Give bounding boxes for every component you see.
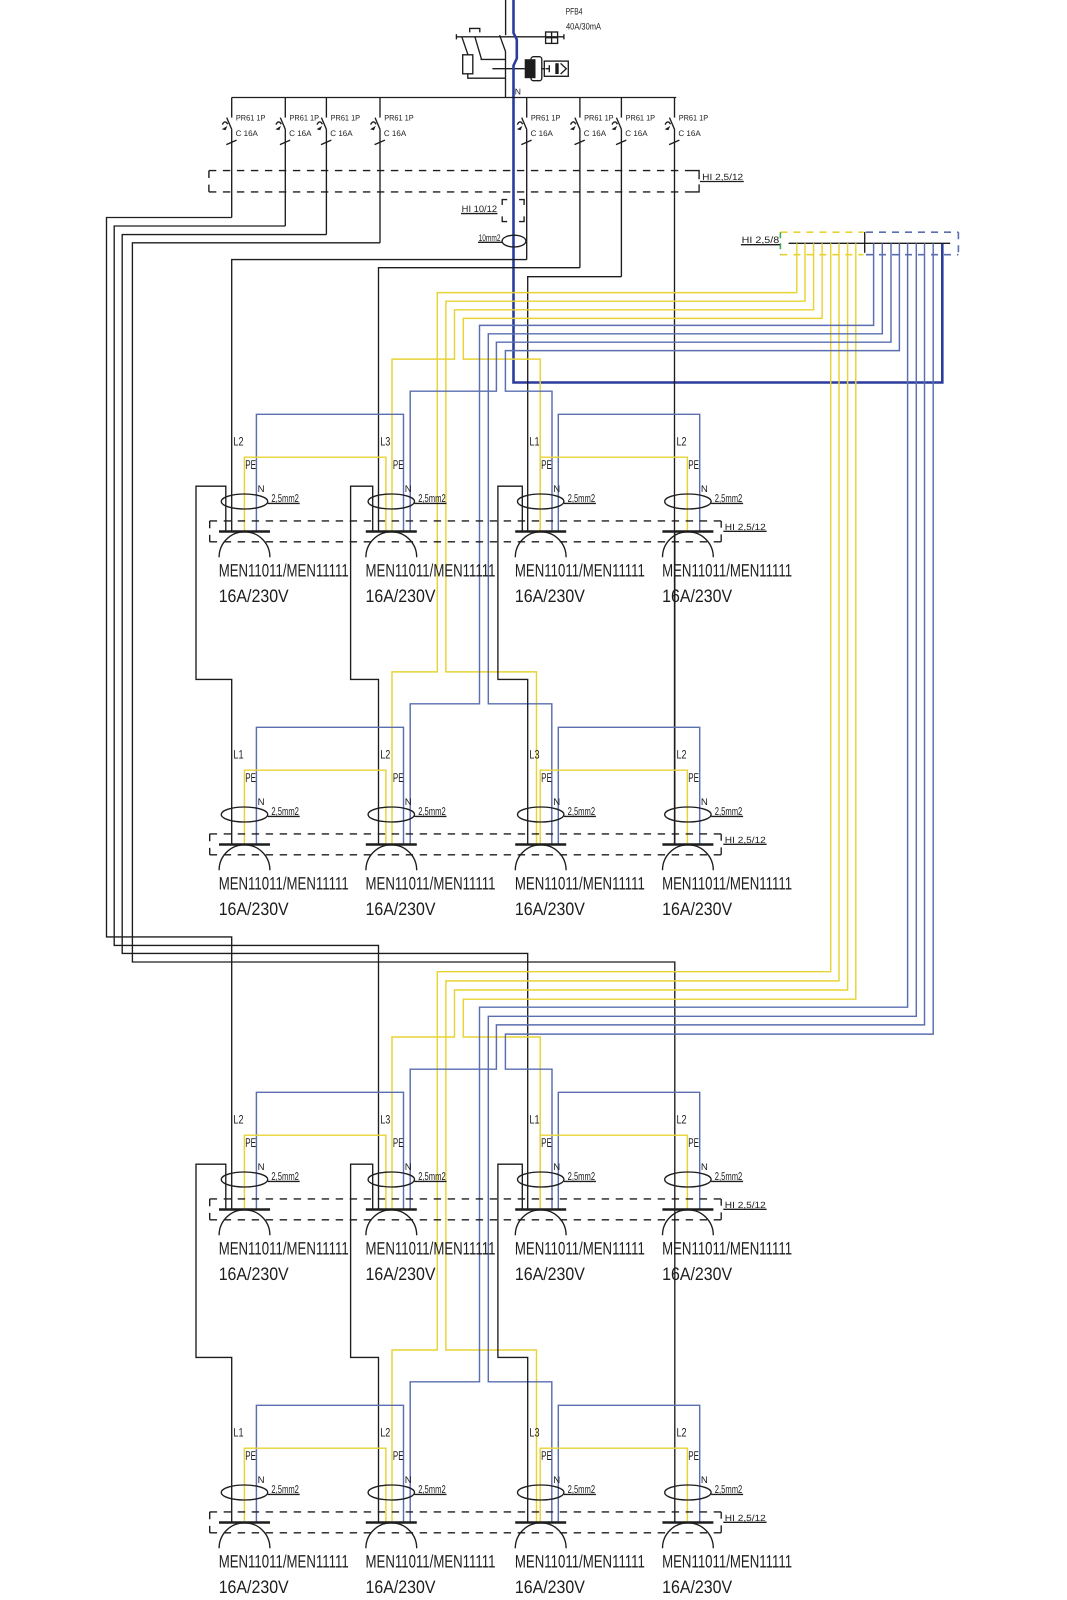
svg-text:PE: PE <box>245 457 256 472</box>
wire loop socket X31 to X41 <box>196 1164 232 1522</box>
N wire tap 7 (to group 3) <box>410 243 924 1209</box>
svg-text:L2: L2 <box>677 1425 687 1439</box>
svg-text:16A/230V: 16A/230V <box>515 1264 585 1284</box>
svg-text:MEN11011/MEN11111: MEN11011/MEN11111 <box>515 561 645 581</box>
wire L distribution bus <box>232 97 677 99</box>
svg-text:N: N <box>701 484 708 495</box>
svg-text:PR61 1P: PR61 1P <box>236 113 266 122</box>
svg-text:PR61 1P: PR61 1P <box>384 113 414 122</box>
N chain wire sockets X13-X14 <box>558 414 699 531</box>
circuit breaker Q5 PR61 1P C 16A <box>517 98 561 260</box>
svg-text:16A/230V: 16A/230V <box>219 586 289 606</box>
terminal HI 10/12 <box>461 200 524 222</box>
svg-text:C 16A: C 16A <box>584 129 607 138</box>
svg-text:40A/30mA: 40A/30mA <box>566 22 602 32</box>
svg-text:N: N <box>258 1162 265 1173</box>
svg-text:PE: PE <box>393 1448 404 1463</box>
svg-text:PE: PE <box>541 770 552 785</box>
svg-text:PE: PE <box>688 457 699 472</box>
PE chain wire sockets X21-X22 <box>244 770 386 844</box>
wire breaker Q3 to socket group 3 column 3 <box>122 235 528 1210</box>
svg-text:16A/230V: 16A/230V <box>366 586 436 606</box>
label PFB4 <box>566 6 583 16</box>
label HI 2,5/8 <box>741 235 780 245</box>
socket outlet X34 MEN11011/MEN11111 16A/230V <box>662 1112 792 1284</box>
svg-text:16A/230V: 16A/230V <box>366 1577 436 1597</box>
PE chain wire sockets X31-X32 <box>244 1135 386 1209</box>
socket outlet X42 MEN11011/MEN11111 16A/230V <box>366 1425 496 1597</box>
svg-text:N: N <box>405 484 412 495</box>
svg-text:N: N <box>405 1162 412 1173</box>
circuit breaker Q4 PR61 1P C 16A <box>370 98 414 243</box>
socket outlet X12 MEN11011/MEN11111 16A/230V <box>366 434 496 606</box>
svg-text:16A/230V: 16A/230V <box>219 899 289 919</box>
socket outlet X43 MEN11011/MEN11111 16A/230V <box>515 1425 645 1597</box>
svg-text:N: N <box>258 484 265 495</box>
svg-text:MEN11011/MEN11111: MEN11011/MEN11111 <box>662 874 792 894</box>
wire breaker Q2 to socket group 3 column 2 <box>114 226 378 1210</box>
svg-text:L2: L2 <box>380 1425 390 1439</box>
svg-text:16A/230V: 16A/230V <box>662 1577 732 1597</box>
wire breaker Q4 to socket group 3 column 4 <box>132 243 674 1210</box>
N chain wire sockets X41-X42 <box>256 1405 403 1522</box>
socket outlet X23 MEN11011/MEN11111 16A/230V <box>515 747 645 919</box>
svg-text:L1: L1 <box>529 1112 539 1126</box>
label HI 2,5/12 group 3 <box>723 1200 766 1210</box>
label N <box>515 87 521 97</box>
svg-text:HI 2,5/12: HI 2,5/12 <box>725 835 766 845</box>
svg-text:HI 2,5/12: HI 2,5/12 <box>725 522 766 532</box>
svg-text:MEN11011/MEN11111: MEN11011/MEN11111 <box>219 561 349 581</box>
svg-text:HI 2,5/12: HI 2,5/12 <box>725 1200 766 1210</box>
svg-text:PE: PE <box>688 1448 699 1463</box>
PE wire tap 1 (to group 2) <box>392 243 797 844</box>
N wire tap 5 (to group 4) <box>410 243 907 1522</box>
RCD U1 PFB4 40A/30mA <box>456 28 568 97</box>
svg-text:L2: L2 <box>233 434 243 448</box>
svg-text:L2: L2 <box>677 1112 687 1126</box>
svg-text:PE: PE <box>393 770 404 785</box>
PE wire tap 2 (to group 2) <box>446 243 805 844</box>
svg-text:16A/230V: 16A/230V <box>515 899 585 919</box>
svg-text:PE: PE <box>688 1135 699 1150</box>
socket outlet X14 MEN11011/MEN11111 16A/230V <box>662 434 792 606</box>
svg-text:16A/230V: 16A/230V <box>662 1264 732 1284</box>
svg-text:MEN11011/MEN11111: MEN11011/MEN11111 <box>219 874 349 894</box>
wire breaker Q6 to group 1 socket 2 <box>379 268 580 532</box>
svg-text:N: N <box>258 797 265 808</box>
svg-text:C 16A: C 16A <box>236 129 259 138</box>
wire N main (blue) from top through RCD to N busbar <box>514 0 943 383</box>
svg-text:16A/230V: 16A/230V <box>219 1264 289 1284</box>
svg-text:MEN11011/MEN11111: MEN11011/MEN11111 <box>515 874 645 894</box>
svg-text:L2: L2 <box>677 747 687 761</box>
busbar HI 2,5/12 (breaker row) <box>209 171 699 192</box>
svg-text:PE: PE <box>541 1135 552 1150</box>
svg-text:L2: L2 <box>677 434 687 448</box>
circuit breaker Q3 PR61 1P C 16A <box>317 98 361 235</box>
svg-text:PFB4: PFB4 <box>566 6 583 16</box>
PE wire tap 7 (to group 3) <box>392 243 848 1209</box>
svg-text:PE: PE <box>541 1448 552 1463</box>
busbar HI 2,5/12 (socket group 3) <box>210 1199 722 1220</box>
N chain wire sockets X33-X34 <box>558 1092 699 1209</box>
wire loop socket X11 to X21 <box>196 486 232 844</box>
ferrule 10mm2 on N conductor <box>478 233 526 247</box>
svg-text:PE: PE <box>541 457 552 472</box>
svg-text:C 16A: C 16A <box>330 129 353 138</box>
socket outlet X33 MEN11011/MEN11111 16A/230V <box>515 1112 645 1284</box>
N chain wire sockets X11-X12 <box>256 414 403 531</box>
wire breaker Q5 to group 1 socket 1 <box>232 260 527 532</box>
busbar HI 2,5/12 (socket group 4) <box>210 1512 722 1533</box>
PE wire tap 3 (to group 1) <box>392 243 814 531</box>
wire breaker Q1 to socket group 3 column 1 <box>107 218 232 1210</box>
socket outlet X41 MEN11011/MEN11111 16A/230V <box>219 1425 349 1597</box>
label 40A/30mA <box>566 22 602 32</box>
PE chain wire sockets X13-X14 <box>540 457 687 531</box>
svg-text:MEN11011/MEN11111: MEN11011/MEN11111 <box>662 1552 792 1572</box>
busbar HI 2,5/12 (socket group 1) <box>210 521 722 542</box>
svg-text:PR61 1P: PR61 1P <box>331 113 361 122</box>
svg-text:L1: L1 <box>529 434 539 448</box>
N chain wire sockets X23-X24 <box>558 727 699 844</box>
svg-text:L3: L3 <box>529 747 539 761</box>
svg-text:N: N <box>553 484 560 495</box>
N wire tap 4 (to group 1) <box>505 243 899 531</box>
PE chain wire sockets X43-X44 <box>540 1448 687 1522</box>
svg-text:HI 2,5/12: HI 2,5/12 <box>725 1513 766 1523</box>
svg-text:PR61 1P: PR61 1P <box>584 113 614 122</box>
circuit breaker Q6 PR61 1P C 16A <box>570 98 614 268</box>
svg-text:N: N <box>553 1475 560 1486</box>
svg-text:C 16A: C 16A <box>625 129 648 138</box>
socket outlet X22 MEN11011/MEN11111 16A/230V <box>366 747 496 919</box>
svg-text:MEN11011/MEN11111: MEN11011/MEN11111 <box>219 1552 349 1572</box>
svg-text:PR61 1P: PR61 1P <box>531 113 561 122</box>
socket outlet X11 MEN11011/MEN11111 16A/230V <box>219 434 349 606</box>
svg-text:MEN11011/MEN11111: MEN11011/MEN11111 <box>366 1552 496 1572</box>
svg-text:L3: L3 <box>529 1425 539 1439</box>
svg-text:MEN11011/MEN11111: MEN11011/MEN11111 <box>515 1239 645 1259</box>
PE wire tap 8 (to group 3) <box>463 243 856 1209</box>
wire loop socket X34 to X44 <box>674 1210 676 1523</box>
wire breaker Q7 to group 1 socket 3 <box>528 277 622 532</box>
wire loop socket X33 to X43 <box>498 1164 528 1522</box>
svg-text:N: N <box>701 1475 708 1486</box>
svg-text:L2: L2 <box>233 1112 243 1126</box>
N wire tap 3 (to group 1) <box>410 243 891 531</box>
N chain wire sockets X21-X22 <box>256 727 403 844</box>
wire loop socket X32 to X42 <box>351 1164 379 1522</box>
N chain wire sockets X31-X32 <box>256 1092 403 1209</box>
label HI 2,5/12 <box>700 172 744 182</box>
circuit breaker Q7 PR61 1P C 16A <box>612 98 656 277</box>
svg-text:MEN11011/MEN11111: MEN11011/MEN11111 <box>366 1239 496 1259</box>
PE chain wire sockets X11-X12 <box>244 457 386 531</box>
svg-text:PE: PE <box>245 770 256 785</box>
svg-text:N: N <box>515 87 521 97</box>
wire L supply from top <box>505 0 507 35</box>
svg-text:MEN11011/MEN11111: MEN11011/MEN11111 <box>662 561 792 581</box>
svg-text:HI 10/12: HI 10/12 <box>462 204 497 214</box>
svg-text:HI 2,5/12: HI 2,5/12 <box>702 172 743 182</box>
PE chain wire sockets X23-X24 <box>540 770 687 844</box>
svg-text:16A/230V: 16A/230V <box>515 1577 585 1597</box>
socket outlet X31 MEN11011/MEN11111 16A/230V <box>219 1112 349 1284</box>
svg-text:C 16A: C 16A <box>289 129 312 138</box>
svg-text:L3: L3 <box>380 434 390 448</box>
N wire tap 1 (to group 2) <box>410 243 873 844</box>
PE chain wire sockets X33-X34 <box>540 1135 687 1209</box>
svg-text:N: N <box>701 1162 708 1173</box>
svg-text:L3: L3 <box>380 1112 390 1126</box>
socket outlet X21 MEN11011/MEN11111 16A/230V <box>219 747 349 919</box>
PE wire tap 4 (to group 1) <box>463 243 822 531</box>
socket outlet X44 MEN11011/MEN11111 16A/230V <box>662 1425 792 1597</box>
svg-text:PE: PE <box>245 1135 256 1150</box>
svg-text:16A/230V: 16A/230V <box>366 899 436 919</box>
svg-text:N: N <box>553 797 560 808</box>
svg-text:16A/230V: 16A/230V <box>366 1264 436 1284</box>
svg-text:HI 2,5/8: HI 2,5/8 <box>742 235 780 245</box>
svg-text:16A/230V: 16A/230V <box>662 586 732 606</box>
svg-text:PE: PE <box>393 1135 404 1150</box>
wire loop socket X12 to X22 <box>351 486 379 844</box>
svg-text:16A/230V: 16A/230V <box>515 586 585 606</box>
svg-text:PE: PE <box>393 457 404 472</box>
svg-text:MEN11011/MEN11111: MEN11011/MEN11111 <box>366 561 496 581</box>
circuit breaker Q2 PR61 1P C 16A <box>275 98 319 227</box>
svg-text:PE: PE <box>245 1448 256 1463</box>
PE wire tap 5 (to group 4) <box>392 243 831 1522</box>
N chain wire sockets X43-X44 <box>558 1405 699 1522</box>
PE chain wire sockets X41-X42 <box>244 1448 386 1522</box>
svg-text:N: N <box>553 1162 560 1173</box>
svg-text:MEN11011/MEN11111: MEN11011/MEN11111 <box>219 1239 349 1259</box>
svg-text:16A/230V: 16A/230V <box>219 1577 289 1597</box>
svg-text:L1: L1 <box>233 747 243 761</box>
svg-text:N: N <box>405 797 412 808</box>
svg-text:PE: PE <box>688 770 699 785</box>
socket outlet X13 MEN11011/MEN11111 16A/230V <box>515 434 645 606</box>
label HI 2,5/12 group 2 <box>723 835 766 845</box>
N wire tap 2 (to group 2) <box>488 243 882 844</box>
N wire tap 6 (to group 4) <box>488 243 916 1522</box>
svg-text:MEN11011/MEN11111: MEN11011/MEN11111 <box>515 1552 645 1572</box>
svg-text:16A/230V: 16A/230V <box>662 899 732 919</box>
socket outlet X24 MEN11011/MEN11111 16A/230V <box>662 747 792 919</box>
svg-text:PR61 1P: PR61 1P <box>679 113 709 122</box>
svg-text:L1: L1 <box>233 1425 243 1439</box>
svg-text:PR61 1P: PR61 1P <box>290 113 320 122</box>
svg-text:N: N <box>701 797 708 808</box>
busbar HI 2,5/8 (PE+N) <box>780 232 958 255</box>
circuit breaker Q1 PR61 1P C 16A <box>222 98 266 218</box>
wire loop socket X14 to X24 <box>674 532 676 845</box>
circuit breaker Q8 PR61 1P C 16A <box>665 98 709 845</box>
svg-text:L2: L2 <box>380 747 390 761</box>
PE wire tap 6 (to group 4) <box>446 243 839 1522</box>
N wire tap 8 (to group 3) <box>505 243 933 1209</box>
svg-text:N: N <box>405 1475 412 1486</box>
svg-text:MEN11011/MEN11111: MEN11011/MEN11111 <box>366 874 496 894</box>
svg-text:MEN11011/MEN11111: MEN11011/MEN11111 <box>662 1239 792 1259</box>
busbar HI 2,5/12 (socket group 2) <box>210 834 722 855</box>
socket outlet X32 MEN11011/MEN11111 16A/230V <box>366 1112 496 1284</box>
label HI 2,5/12 group 4 <box>723 1513 766 1523</box>
wire loop socket X13 to X23 <box>498 486 528 844</box>
svg-text:C 16A: C 16A <box>531 129 554 138</box>
label HI 2,5/12 group 1 <box>723 522 766 532</box>
svg-text:C 16A: C 16A <box>678 129 701 138</box>
svg-text:N: N <box>258 1475 265 1486</box>
svg-text:PR61 1P: PR61 1P <box>626 113 656 122</box>
svg-text:C 16A: C 16A <box>384 129 407 138</box>
